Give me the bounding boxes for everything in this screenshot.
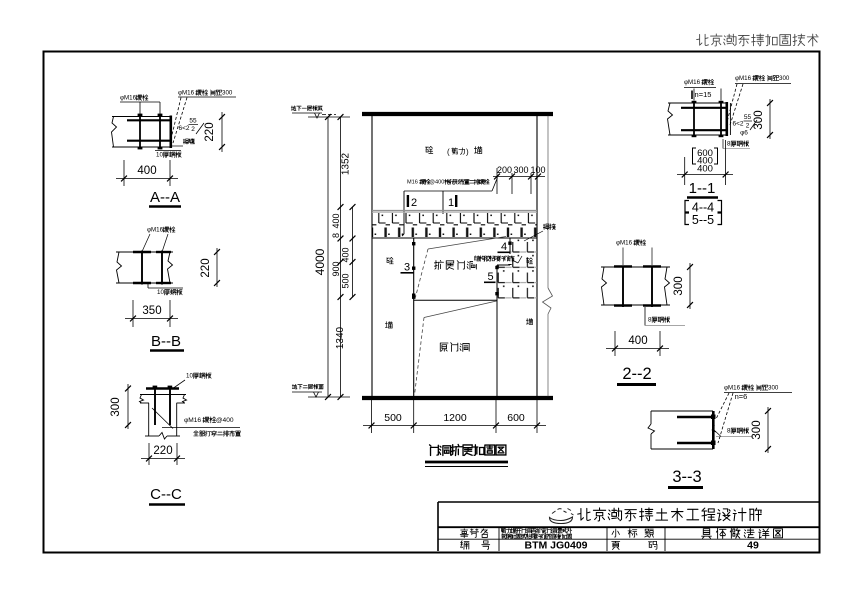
svg-text:φ6: φ6 [740,130,748,137]
svg-text:4: 4 [501,241,507,253]
svg-text:A--A: A--A [150,189,180,206]
main title [430,445,439,456]
svg-text:400: 400 [331,213,341,228]
svg-text:8: 8 [727,141,731,148]
bottom dimensions [371,400,373,433]
svg-text:8: 8 [727,428,731,435]
svg-text:300: 300 [768,385,779,392]
svg-text:300: 300 [751,420,763,439]
svg-text:φM16: φM16 [147,227,164,234]
detail C-C: vertical section [146,387,179,389]
detail A-A: wall plan section with bolts [112,116,171,118]
svg-text:5--5: 5--5 [692,213,714,227]
svg-text:1340: 1340 [335,326,346,349]
svg-text:400: 400 [341,247,351,262]
svg-text:BTM JG0409: BTM JG0409 [524,540,587,552]
lintel band [372,210,537,212]
svg-text:220: 220 [200,258,212,277]
svg-text:3--3: 3--3 [672,468,701,486]
svg-text:600: 600 [507,412,525,424]
svg-text:900: 900 [331,261,341,276]
expanded opening boundary [413,238,415,396]
opening labels [434,260,443,269]
svg-text:4000: 4000 [313,248,327,275]
svg-text:5: 5 [487,271,493,283]
svg-text:): ) [466,148,469,157]
border frame [44,52,820,553]
detail B-B: wall plan section [116,251,173,253]
svg-text:φM16: φM16 [120,95,137,102]
title block [438,501,820,503]
svg-text:300: 300 [110,397,122,416]
svg-text:1--1: 1--1 [689,180,716,197]
wall material labels [425,146,432,153]
detail 2-2 [601,266,670,268]
header text [697,34,709,45]
svg-text:10: 10 [186,373,193,380]
svg-text:200: 200 [497,165,512,175]
svg-text:500: 500 [341,273,351,288]
svg-text:400: 400 [137,165,156,177]
svg-text:300: 300 [779,75,790,82]
svg-text:n=15: n=15 [695,90,712,99]
svg-text:220: 220 [204,122,216,141]
svg-text:n=6: n=6 [735,392,748,401]
svg-text:500: 500 [384,412,402,424]
svg-text:350: 350 [142,305,161,317]
svg-text:300: 300 [222,90,233,97]
svg-text:8: 8 [648,317,652,324]
level labels left [291,106,296,111]
central figure: slabs [362,112,553,116]
svg-text:φM16: φM16 [735,75,752,82]
svg-text:M16: M16 [407,180,418,186]
svg-text:3: 3 [404,262,410,274]
transition thin lines [428,237,506,250]
glue label [473,254,512,264]
svg-text:55: 55 [189,118,197,125]
left dimension chains [327,117,329,397]
svg-text:10: 10 [157,289,164,296]
svg-text:300: 300 [673,276,685,295]
detail 1-1 [668,102,727,104]
svg-text:6<2: 6<2 [732,121,743,128]
svg-text:220: 220 [153,445,172,457]
svg-text:2: 2 [411,197,417,209]
detail 3-3 [651,410,713,412]
svg-text:49: 49 [747,540,759,552]
logo [550,517,573,524]
svg-text:8: 8 [331,233,341,238]
svg-text:C--C: C--C [150,486,182,503]
wall edges [371,116,373,396]
svg-text:55: 55 [744,114,752,121]
svg-text:φM16: φM16 [684,79,701,86]
svg-text:2: 2 [191,126,195,133]
svg-text:400: 400 [697,164,713,175]
dims 200 300 100 [496,168,498,194]
svg-text:10: 10 [156,152,163,159]
svg-text:2--2: 2--2 [622,365,651,383]
svg-text:400: 400 [628,335,647,347]
svg-text:6<2: 6<2 [178,125,189,132]
svg-text:1200: 1200 [443,412,467,424]
svg-text:φM16: φM16 [178,90,195,97]
svg-text:1352: 1352 [341,152,352,175]
svg-text:φM16: φM16 [724,385,741,392]
weld label right [543,224,549,230]
svg-text:φM16: φM16 [616,240,633,247]
svg-text:100: 100 [530,165,545,175]
svg-text:φM16: φM16 [184,417,201,424]
svg-text:300: 300 [753,110,765,129]
svg-text:300: 300 [513,165,528,175]
svg-text:B--B: B--B [151,333,181,350]
svg-text:2: 2 [746,123,750,130]
svg-text:@400: @400 [216,417,234,424]
svg-text:@400: @400 [429,180,444,186]
svg-text:(: ( [447,148,450,157]
svg-text:1: 1 [448,197,454,209]
